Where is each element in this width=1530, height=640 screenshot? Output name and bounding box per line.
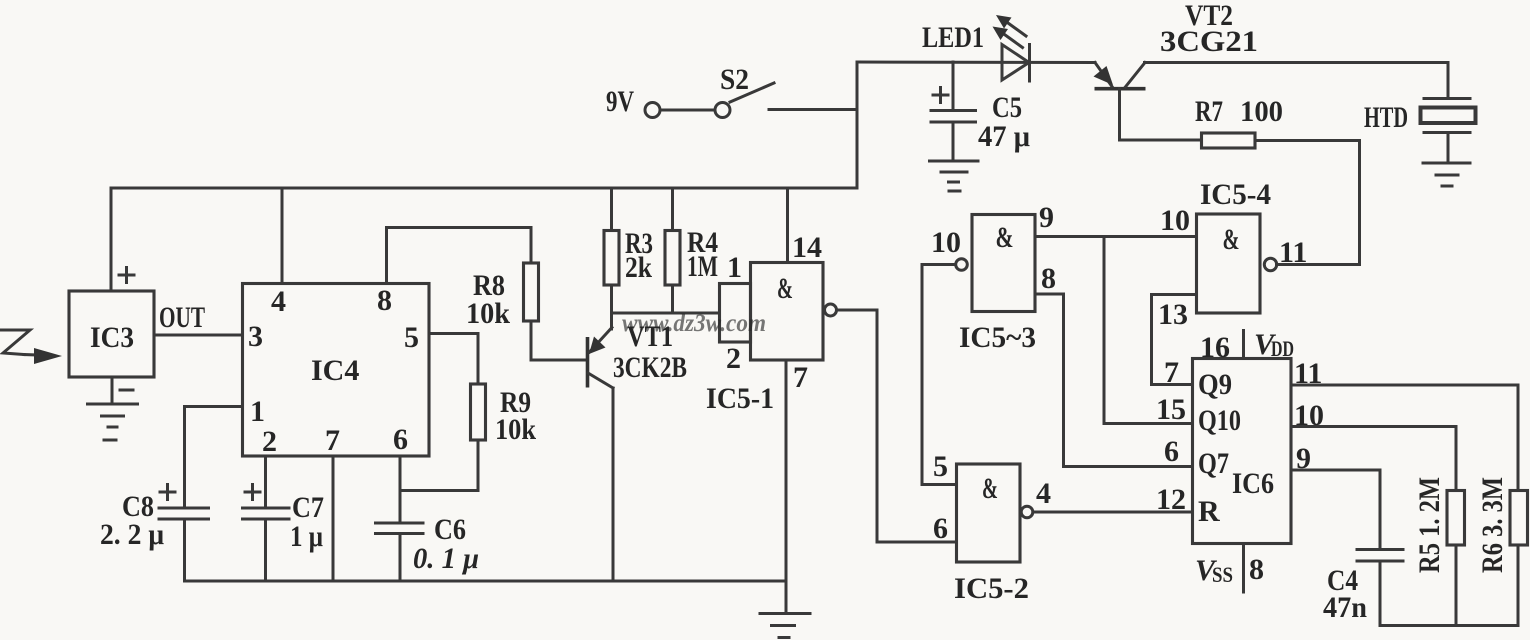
wire IC4 pin8 up and over to R8: [387, 228, 532, 284]
gate IC5-2 box: [957, 464, 1021, 562]
svg-text:47n: 47n: [1323, 591, 1367, 624]
svg-text:HTD: HTD: [1364, 101, 1408, 134]
capacitor C8 plates: [159, 508, 209, 519]
resistor R7 body: [1202, 133, 1256, 148]
wire IC6 pin10 to R5: [1291, 427, 1456, 491]
IC4 box: [243, 284, 430, 457]
gate IC5-3 box: [972, 215, 1035, 312]
capacitor C6 plates: [376, 523, 424, 534]
wire IC6 pin11 to R6: [1291, 385, 1518, 491]
svg-text:6: 6: [933, 512, 948, 545]
wire IC4 pin6 to C6: [399, 456, 402, 523]
svg-text:5: 5: [933, 450, 948, 483]
svg-text:IC5-2: IC5-2: [954, 572, 1029, 605]
svg-text:0. 1 μ: 0. 1 μ: [413, 542, 479, 575]
svg-text:IC5-1: IC5-1: [706, 382, 774, 415]
switch S2 lever: [730, 83, 774, 102]
wire R3 bottom to VT1 collector: [610, 285, 613, 329]
wire power node vertical: [856, 62, 859, 188]
wire top rail left segment through LED: [857, 61, 1095, 65]
svg-text:&: &: [982, 472, 998, 505]
svg-text:4: 4: [1036, 477, 1051, 510]
ground below HTD: [1423, 163, 1470, 186]
wire IC5-2 output to IC6 R: [1033, 511, 1193, 514]
svg-text:7: 7: [793, 361, 808, 394]
svg-text:IC6: IC6: [1232, 467, 1274, 500]
right bottom rail: [1380, 624, 1518, 627]
wire IC4 pin2 to C7: [264, 456, 267, 508]
svg-text:DD: DD: [1271, 336, 1294, 361]
svg-text:9: 9: [1039, 201, 1054, 234]
IC3 minus mark: [120, 389, 133, 392]
svg-text:&: &: [996, 221, 1014, 254]
svg-text:6: 6: [393, 423, 408, 456]
wire supply bus: [111, 187, 857, 190]
svg-text:2k: 2k: [625, 251, 652, 284]
svg-text:Q9: Q9: [1198, 368, 1232, 401]
ground below C5: [930, 161, 979, 191]
wire C4 to right rail: [1379, 561, 1382, 626]
wire IC5-3 pin10 to IC5-2 pin5: [922, 265, 957, 485]
capacitor C5 plates: [931, 111, 976, 123]
svg-text:10: 10: [1160, 204, 1190, 237]
svg-text:47 μ: 47 μ: [978, 120, 1030, 153]
switch S2 right contact: [715, 103, 730, 118]
svg-text:R7: R7: [1195, 95, 1223, 128]
wire junction IC5-3 pin9 down to IC6 Q10: [1104, 237, 1193, 424]
svg-text:1 μ: 1 μ: [290, 520, 323, 553]
capacitor C8 plus: [160, 485, 175, 500]
IC3 ground stub: [111, 377, 114, 404]
wire VT2 base to R7: [1120, 139, 1202, 142]
svg-text:1M: 1M: [687, 250, 718, 283]
resistor R3 top stub: [610, 188, 613, 231]
transistor VT1: [588, 328, 614, 582]
gate IC5-4 box: [1197, 214, 1261, 313]
svg-text:15: 15: [1156, 393, 1186, 426]
wire IC5-1 pin14 to bus: [786, 188, 789, 263]
svg-text:100: 100: [1240, 95, 1283, 128]
resistor R4 top stub: [671, 188, 674, 231]
buzzer HTD bottom stub: [1447, 133, 1450, 164]
svg-text:IC3: IC3: [90, 321, 134, 354]
resistor R5 body: [1447, 491, 1465, 546]
LED1 cathode bar: [1028, 45, 1031, 82]
wire R6 to right rail: [1517, 545, 1520, 626]
wire between switch contacts: [661, 109, 714, 112]
input signal Z arrow: [1, 330, 62, 364]
wire R4 bottom to node: [671, 285, 674, 313]
svg-text:Q7: Q7: [1198, 447, 1229, 480]
IC5-1 input connector: [720, 284, 751, 343]
IC3 box: [69, 291, 154, 377]
capacitor C5 plus: [933, 88, 948, 103]
svg-text:IC4: IC4: [311, 354, 359, 387]
svg-text:8: 8: [377, 284, 392, 317]
svg-text:6: 6: [1164, 435, 1179, 468]
svg-text:2: 2: [262, 425, 277, 458]
svg-text:R5 1. 2M: R5 1. 2M: [1413, 477, 1446, 573]
transistor VT2: [1094, 63, 1146, 141]
svg-text:8: 8: [1249, 553, 1264, 586]
resistor R6 body: [1510, 491, 1528, 546]
svg-text:13: 13: [1158, 298, 1188, 331]
svg-text:10: 10: [931, 226, 961, 259]
wire IC4 pin4 to bus: [281, 188, 284, 284]
svg-text:9V: 9V: [606, 85, 634, 118]
wire C6 to bottom rail: [399, 534, 402, 582]
IC6 box: [1193, 359, 1292, 544]
IC5-1 output bubble: [825, 304, 837, 316]
svg-text:14: 14: [792, 231, 822, 264]
buzzer HTD symbol: [1421, 99, 1476, 133]
svg-text:4: 4: [271, 285, 286, 318]
svg-text:&: &: [777, 272, 793, 305]
svg-text:R: R: [1198, 495, 1220, 528]
wire IC6 pin9 to C4: [1291, 470, 1380, 550]
capacitor C4 plates: [1357, 550, 1403, 562]
svg-text:1: 1: [727, 251, 742, 284]
svg-text:SS: SS: [1212, 562, 1233, 587]
svg-text:Q10: Q10: [1198, 404, 1241, 437]
wire R7 to IC5-4 output: [1255, 141, 1360, 265]
wire C8 to bottom rail: [183, 519, 186, 581]
svg-text:R6 3. 3M: R6 3. 3M: [1476, 477, 1509, 573]
wire IC4 pin7 to bottom rail: [332, 456, 335, 581]
svg-text:3CG21: 3CG21: [1160, 25, 1258, 58]
svg-text:7: 7: [1164, 356, 1179, 389]
IC5-2 output bubble: [1021, 506, 1033, 518]
svg-text:1: 1: [250, 395, 265, 428]
svg-text:8: 8: [1041, 262, 1056, 295]
wire R5 to right rail: [1455, 545, 1458, 626]
wire IC3 OUT to IC4 pin3: [154, 334, 243, 337]
wire switch to power node: [769, 108, 857, 111]
svg-text:7: 7: [325, 424, 340, 457]
wire IC5-1 pin7 to ground: [785, 360, 788, 613]
resistor R9 body: [471, 384, 486, 440]
svg-text:IC5-4: IC5-4: [1200, 178, 1271, 211]
svg-text:2. 2 μ: 2. 2 μ: [100, 518, 164, 551]
IC3 plus mark: [119, 268, 134, 283]
svg-text:3: 3: [248, 320, 263, 353]
wire IC5-3 pin8 to IC6 Q7: [1035, 294, 1193, 467]
svg-text:10k: 10k: [466, 297, 510, 330]
LED1 emission arrow upper: [996, 15, 1026, 36]
gate IC5-1 box: [751, 263, 824, 361]
svg-text:10k: 10k: [495, 413, 536, 446]
wire IC4 pin1 to C8: [185, 407, 243, 509]
IC5-3 input bubble: [956, 259, 968, 271]
svg-text:www.dz3w.com: www.dz3w.com: [622, 310, 766, 337]
capacitor C7 plates: [243, 508, 290, 519]
LED1 triangle: [1002, 45, 1029, 81]
capacitor C7 plus: [245, 485, 260, 500]
svg-text:5: 5: [404, 321, 419, 354]
svg-text:12: 12: [1156, 483, 1186, 516]
svg-text:2: 2: [726, 342, 741, 375]
resistor R3 body: [604, 231, 619, 286]
wire R8 to VT1 base: [531, 321, 586, 360]
IC5-4 output bubble: [1264, 258, 1276, 270]
wire IC5-4 output to R7 node: [1277, 263, 1360, 266]
resistor R4 body: [665, 231, 680, 286]
LED1 emission arrow lower: [993, 27, 1023, 48]
wire node to IC5-1 input: [612, 312, 720, 315]
main ground symbol: [760, 614, 810, 638]
svg-text:16: 16: [1200, 331, 1230, 364]
wire IC5-3 pin9 to IC5-4 pin10: [1035, 235, 1197, 238]
svg-text:&: &: [1223, 223, 1240, 256]
capacitor C5 bottom stub: [952, 122, 955, 161]
wire IC4 pin5 to R9: [429, 334, 478, 385]
IC6 VDD stub: [1242, 331, 1245, 359]
wire IC5-4 pin13 to IC6 Q9: [1152, 295, 1197, 385]
wire R9 bottom to pin6 node: [400, 440, 478, 491]
wire top rail right segment to HTD: [1145, 61, 1449, 64]
ground below IC3: [88, 404, 138, 440]
svg-text:OUT: OUT: [159, 301, 205, 334]
wire C7 to bottom rail: [264, 519, 267, 581]
bottom ground rail: [185, 580, 787, 583]
svg-text:IC5~3: IC5~3: [959, 321, 1036, 354]
switch S2 left contact: [645, 103, 660, 118]
resistor R8 body: [524, 263, 539, 321]
svg-text:LED1: LED1: [922, 21, 984, 54]
wire IC5-1 output to IC5-2 pin6: [837, 310, 957, 542]
svg-text:S2: S2: [720, 63, 749, 96]
svg-text:3CK2B: 3CK2B: [613, 351, 687, 384]
IC6 VSS stub: [1242, 544, 1245, 593]
capacitor C5 top stub: [952, 62, 955, 110]
IC3 top wire: [110, 188, 113, 291]
buzzer HTD top stub: [1447, 63, 1450, 99]
